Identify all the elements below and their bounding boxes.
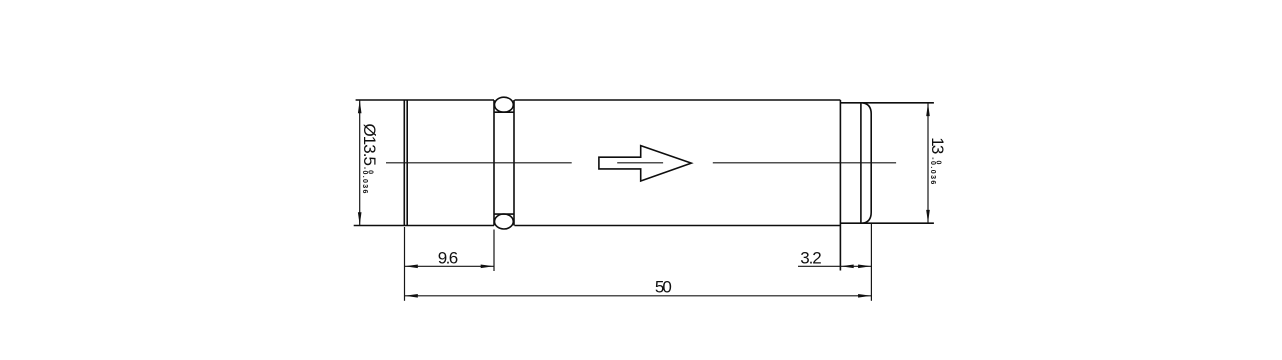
svg-text:0: 0 — [934, 161, 941, 165]
svg-text:9.6: 9.6 — [438, 248, 459, 267]
svg-text:0: 0 — [366, 170, 373, 174]
svg-text:50: 50 — [655, 278, 672, 297]
svg-text:13: 13 — [928, 137, 947, 154]
svg-text:3.2: 3.2 — [800, 248, 822, 267]
svg-text:Ø13.5: Ø13.5 — [360, 124, 379, 167]
